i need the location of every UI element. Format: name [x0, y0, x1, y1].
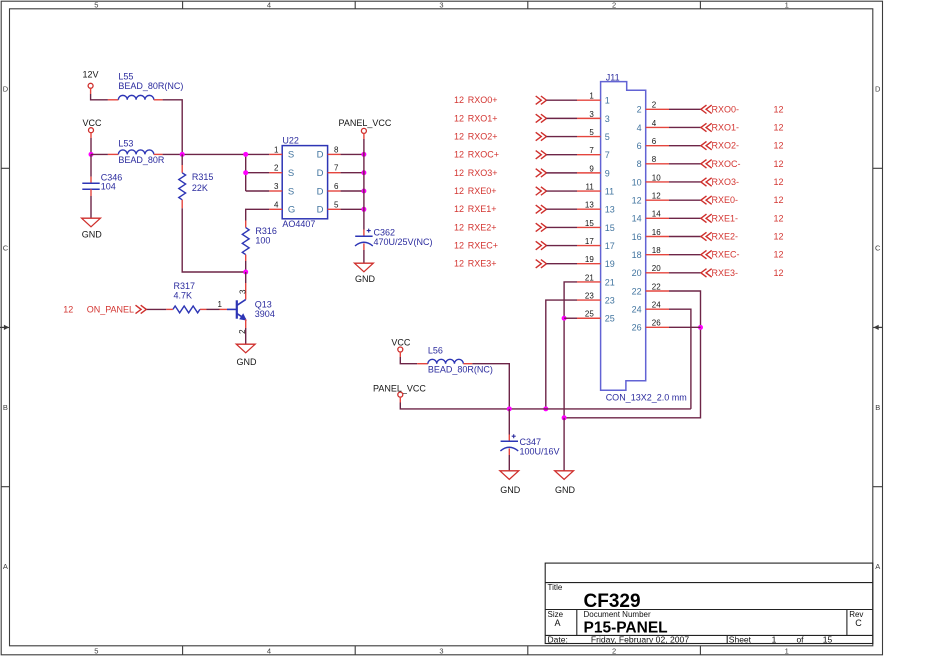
svg-text:12: 12: [454, 259, 464, 269]
svg-text:12: 12: [774, 268, 784, 278]
svg-text:RXE1+: RXE1+: [468, 204, 497, 214]
svg-text:A: A: [3, 562, 8, 571]
svg-text:9: 9: [605, 168, 610, 178]
svg-text:4: 4: [267, 647, 271, 656]
svg-text:3: 3: [274, 182, 279, 191]
svg-text:12: 12: [454, 95, 464, 105]
svg-text:1: 1: [785, 0, 789, 9]
svg-text:20: 20: [632, 268, 642, 278]
wire PANEL_VCC rail down: [363, 133, 365, 139]
svg-text:GND: GND: [237, 357, 258, 367]
op U22 body: [282, 146, 327, 219]
svg-text:RXE1-: RXE1-: [712, 213, 739, 223]
wire 12V to L55: [90, 88, 92, 94]
wire L55 to node: [154, 99, 163, 101]
svg-text:Friday, February 02, 2007: Friday, February 02, 2007: [591, 635, 689, 645]
svg-text:13: 13: [605, 205, 615, 215]
wire pin24 to PANEL_VCC rail: [669, 309, 691, 409]
right center arrow: [878, 326, 882, 328]
svg-text:11: 11: [605, 186, 614, 196]
wire R317 to Q13: [207, 308, 220, 310]
J11 pin 22: [646, 290, 669, 292]
svg-text:12: 12: [632, 196, 642, 206]
svg-text:25: 25: [585, 310, 594, 319]
svg-text:10: 10: [652, 173, 661, 182]
node VCC junction: [89, 152, 94, 157]
signal RXO0- pin 2: [646, 108, 669, 110]
capacitor C362 470U/25V(NC): [355, 235, 372, 237]
svg-text:Title: Title: [548, 583, 563, 592]
svg-text:GND: GND: [555, 485, 576, 495]
svg-text:17: 17: [605, 241, 615, 251]
signal RXE1- pin 14: [646, 217, 669, 219]
svg-text:4.7K: 4.7K: [174, 290, 193, 300]
svg-text:A: A: [875, 562, 880, 571]
J11 pin 21: [577, 281, 601, 283]
svg-text:24: 24: [632, 305, 642, 315]
svg-text:12: 12: [454, 132, 464, 142]
inductor L53 BEAD_80R: [118, 150, 153, 154]
svg-text:L53: L53: [118, 138, 133, 148]
svg-text:3: 3: [439, 0, 443, 9]
inductor L56 BEAD_80R(NC): [428, 359, 463, 363]
svg-text:S: S: [288, 150, 294, 161]
svg-text:12: 12: [774, 159, 784, 169]
svg-text:5: 5: [605, 132, 610, 142]
svg-text:CON_13X2_2.0 mm: CON_13X2_2.0 mm: [606, 392, 687, 402]
svg-text:BEAD_80R(NC): BEAD_80R(NC): [118, 81, 183, 91]
ground GND C347: [500, 471, 519, 480]
inductor L55 BEAD_80R(NC): [118, 95, 153, 99]
svg-text:15: 15: [585, 219, 594, 228]
capacitor C347 100U/16V: [508, 409, 510, 435]
node L56/C347 junction: [507, 406, 512, 411]
svg-text:8: 8: [637, 159, 642, 169]
svg-text:18: 18: [632, 250, 642, 260]
svg-text:2: 2: [612, 0, 616, 9]
svg-text:RXO0+: RXO0+: [468, 95, 498, 105]
wire pin21 pin25 to lower rail: [564, 282, 577, 418]
svg-text:1: 1: [274, 145, 279, 154]
svg-text:18: 18: [652, 246, 661, 255]
svg-text:RXE3+: RXE3+: [468, 259, 497, 269]
svg-text:12: 12: [454, 222, 464, 232]
svg-text:24: 24: [652, 301, 661, 310]
svg-text:16: 16: [652, 228, 661, 237]
svg-text:12: 12: [63, 304, 73, 314]
svg-text:VCC: VCC: [391, 337, 411, 347]
svg-text:RXO2+: RXO2+: [468, 132, 498, 142]
svg-text:GND: GND: [355, 274, 376, 284]
node pin1: [243, 152, 248, 157]
svg-text:470U/25V(NC): 470U/25V(NC): [374, 237, 433, 247]
svg-text:S: S: [288, 186, 294, 197]
svg-text:RXE2-: RXE2-: [712, 231, 739, 241]
svg-text:R315: R315: [192, 172, 214, 182]
svg-text:3: 3: [589, 110, 594, 119]
svg-text:100: 100: [255, 235, 270, 245]
svg-text:1: 1: [785, 647, 789, 656]
svg-text:12: 12: [774, 195, 784, 205]
svg-text:14: 14: [652, 210, 661, 219]
svg-text:7: 7: [589, 146, 594, 155]
svg-text:26: 26: [632, 323, 642, 333]
svg-text:4: 4: [274, 200, 279, 209]
svg-text:5: 5: [334, 200, 339, 209]
svg-text:5: 5: [589, 128, 594, 137]
svg-text:11: 11: [585, 182, 594, 191]
U22 left pin stubs: [269, 153, 282, 155]
transistor Q13 3904: [236, 300, 238, 318]
svg-text:R317: R317: [174, 281, 196, 291]
svg-text:AO4407: AO4407: [282, 219, 315, 229]
svg-text:3: 3: [238, 289, 247, 294]
svg-text:2: 2: [652, 101, 657, 110]
svg-text:21: 21: [585, 273, 594, 282]
signal RXO1- pin 4: [646, 126, 669, 128]
signal RXE3- pin 20: [646, 272, 669, 274]
resistor R315 22K: [181, 154, 183, 165]
wire R315 to collector node: [182, 208, 246, 272]
svg-text:104: 104: [101, 182, 116, 192]
svg-text:L56: L56: [428, 345, 443, 355]
svg-text:12: 12: [454, 113, 464, 123]
svg-text:23: 23: [605, 295, 615, 305]
svg-text:8: 8: [334, 145, 339, 154]
J11 pin 25: [577, 317, 601, 319]
svg-text:RXO1-: RXO1-: [712, 122, 740, 132]
svg-text:CF329: CF329: [584, 591, 641, 612]
svg-text:1: 1: [589, 92, 594, 101]
svg-text:12: 12: [774, 213, 784, 223]
svg-text:8: 8: [652, 155, 657, 164]
J11 pin 26: [646, 326, 669, 328]
svg-text:RXE3-: RXE3-: [712, 268, 739, 278]
svg-text:15: 15: [605, 223, 615, 233]
wire VCC row: [91, 153, 108, 155]
svg-text:D: D: [317, 150, 324, 161]
svg-text:RXO3+: RXO3+: [468, 168, 498, 178]
svg-text:C: C: [855, 618, 862, 628]
wire pin22 pin26 down: [564, 291, 700, 418]
svg-text:PANEL_VCC: PANEL_VCC: [339, 118, 392, 128]
svg-text:12: 12: [774, 177, 784, 187]
svg-text:Q13: Q13: [255, 300, 272, 310]
resistor R316 100: [245, 221, 247, 228]
svg-text:A: A: [554, 618, 560, 628]
svg-text:J11: J11: [606, 72, 620, 82]
Q13 emitter wire: [245, 319, 247, 328]
svg-text:9: 9: [589, 164, 594, 173]
wire pin23 to PANEL_VCC rail: [546, 300, 577, 409]
svg-text:19: 19: [605, 259, 615, 269]
svg-text:22: 22: [652, 282, 661, 291]
svg-text:6: 6: [637, 141, 642, 151]
svg-text:12: 12: [454, 204, 464, 214]
wire U22 pin2 pin3 bus: [245, 154, 247, 191]
svg-text:20: 20: [652, 264, 661, 273]
svg-text:S: S: [288, 168, 294, 179]
svg-text:4: 4: [267, 0, 271, 9]
svg-text:C347: C347: [520, 437, 542, 447]
wires U22 right to PANEL_VCC rail: [341, 153, 364, 155]
wire VCC to L56: [399, 352, 401, 357]
svg-text:100U/16V: 100U/16V: [520, 446, 560, 456]
svg-text:D: D: [317, 168, 324, 179]
ground GND C346: [82, 218, 101, 227]
svg-text:3: 3: [605, 114, 610, 124]
J11 pin 24: [646, 308, 669, 310]
svg-text:10: 10: [632, 177, 642, 187]
svg-text:D: D: [317, 186, 324, 197]
Q13 base stub: [220, 308, 228, 310]
svg-text:13: 13: [585, 201, 594, 210]
svg-text:12: 12: [774, 104, 784, 114]
node collector junction: [243, 270, 248, 275]
title block frame: [545, 563, 873, 643]
svg-text:3: 3: [439, 647, 443, 656]
node pin25 junction: [562, 316, 567, 321]
svg-text:D: D: [317, 205, 324, 216]
signal RXO3- pin 10: [646, 181, 669, 183]
svg-text:D: D: [875, 84, 881, 93]
U22 right pin stubs: [328, 153, 341, 155]
svg-text:22: 22: [632, 286, 642, 296]
svg-text:ON_PANEL: ON_PANEL: [87, 304, 134, 314]
left center arrow: [0, 326, 5, 328]
svg-text:RXE2+: RXE2+: [468, 222, 497, 232]
svg-text:12: 12: [454, 168, 464, 178]
svg-text:BEAD_80R(NC): BEAD_80R(NC): [428, 365, 493, 375]
svg-text:BEAD_80R: BEAD_80R: [118, 155, 165, 165]
port ON_PANEL: [136, 305, 147, 313]
svg-text:RXE0-: RXE0-: [712, 195, 739, 205]
svg-text:B: B: [875, 403, 880, 412]
J11 pin 23: [577, 299, 601, 301]
svg-text:16: 16: [632, 232, 642, 242]
capacitor C346 104: [90, 154, 92, 176]
svg-text:C362: C362: [374, 227, 396, 237]
svg-text:RXE0+: RXE0+: [468, 186, 497, 196]
svg-text:4: 4: [652, 119, 657, 128]
svg-text:7: 7: [334, 164, 339, 173]
node lower rail junction: [562, 415, 567, 420]
wire ON_PANEL to R317: [146, 308, 166, 310]
svg-text:19: 19: [585, 255, 594, 264]
svg-text:RXEC+: RXEC+: [468, 241, 498, 251]
svg-text:12: 12: [454, 241, 464, 251]
wire L53 to U22 pin1: [154, 153, 163, 155]
ground GND C362: [355, 263, 374, 272]
svg-text:6: 6: [334, 182, 339, 191]
svg-text:5: 5: [94, 0, 98, 9]
node pin23 rail junction: [543, 406, 548, 411]
svg-text:23: 23: [585, 291, 594, 300]
svg-text:1: 1: [605, 96, 610, 106]
svg-text:C: C: [875, 244, 881, 253]
svg-text:D: D: [3, 84, 9, 93]
svg-text:RXO2-: RXO2-: [712, 141, 740, 151]
svg-text:4: 4: [637, 123, 642, 133]
signal RXO2- pin 6: [646, 145, 669, 147]
svg-text:2: 2: [637, 105, 642, 115]
ground GND Q13: [236, 344, 255, 353]
wire pin25: [564, 317, 577, 319]
svg-text:15: 15: [823, 635, 833, 645]
svg-text:GND: GND: [500, 485, 521, 495]
wire U22 pin4 gate: [246, 209, 270, 220]
node pin26 junction: [698, 325, 703, 330]
svg-text:12: 12: [774, 141, 784, 151]
svg-text:1: 1: [218, 300, 223, 309]
svg-text:RXOC-: RXOC-: [712, 159, 741, 169]
svg-text:3904: 3904: [255, 309, 275, 319]
signal RXEC- pin 18: [646, 254, 669, 256]
svg-text:2: 2: [612, 647, 616, 656]
svg-text:12: 12: [774, 122, 784, 132]
svg-text:12: 12: [454, 186, 464, 196]
svg-text:RXEC-: RXEC-: [712, 250, 740, 260]
node pin2: [243, 170, 248, 175]
svg-text:RXOC+: RXOC+: [468, 150, 499, 160]
svg-text:26: 26: [652, 319, 661, 328]
svg-text:1: 1: [772, 635, 777, 645]
svg-text:12V: 12V: [83, 70, 99, 80]
svg-text:B: B: [3, 403, 8, 412]
svg-text:RXO0-: RXO0-: [712, 104, 740, 114]
svg-text:12: 12: [774, 250, 784, 260]
wire lower rail to ground: [563, 418, 565, 471]
svg-text:21: 21: [605, 277, 615, 287]
svg-text:25: 25: [605, 314, 615, 324]
connector J11 body: [601, 82, 646, 391]
svg-text:22K: 22K: [192, 183, 208, 193]
svg-text:U22: U22: [282, 135, 299, 145]
wire L56 to rail: [463, 363, 472, 365]
svg-text:2: 2: [274, 164, 279, 173]
wire VCC down: [90, 133, 92, 138]
svg-text:12: 12: [652, 192, 661, 201]
svg-text:of: of: [796, 635, 804, 645]
svg-text:17: 17: [585, 237, 594, 246]
signal RXE2- pin 16: [646, 235, 669, 237]
svg-text:C: C: [3, 244, 9, 253]
svg-text:Sheet: Sheet: [729, 635, 752, 645]
svg-text:Document Number: Document Number: [584, 610, 651, 619]
svg-text:G: G: [288, 205, 295, 216]
svg-text:RXO1+: RXO1+: [468, 113, 498, 123]
svg-text:14: 14: [632, 214, 642, 224]
border zone ticks: [182, 1, 184, 9]
resistor R317 4.7K: [173, 306, 200, 313]
node L55/L53 junction: [180, 152, 185, 157]
svg-text:12: 12: [454, 150, 464, 160]
ground GND rail: [555, 471, 574, 480]
wire PANEL_VCC rail: [399, 397, 401, 402]
signal RXE0- pin 12: [646, 199, 669, 201]
svg-text:Date:: Date:: [548, 635, 568, 645]
svg-text:12: 12: [774, 231, 784, 241]
wire pin26: [669, 326, 701, 328]
svg-text:5: 5: [94, 647, 98, 656]
svg-text:7: 7: [605, 150, 610, 160]
svg-text:6: 6: [652, 137, 657, 146]
svg-text:VCC: VCC: [83, 118, 103, 128]
signal RXOC- pin 8: [646, 163, 669, 165]
wire node to Q13 collector: [245, 272, 247, 283]
svg-text:RXO3-: RXO3-: [712, 177, 740, 187]
svg-text:GND: GND: [82, 230, 103, 240]
